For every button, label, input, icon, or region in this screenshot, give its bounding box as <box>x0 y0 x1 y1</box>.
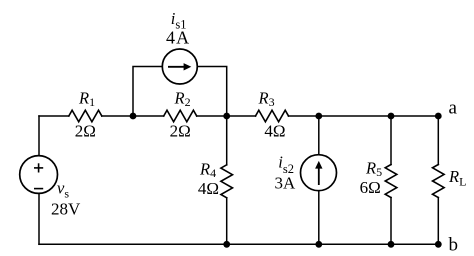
wire top-left segment <box>39 115 69 117</box>
wire node C to R5 <box>390 116 392 165</box>
resistor RL <box>433 165 445 198</box>
voltage source minus sign <box>34 188 43 190</box>
node dot top R2/R4 <box>223 113 230 120</box>
node dot top is2 <box>315 113 322 120</box>
svg-text:2Ω: 2Ω <box>170 122 191 141</box>
wire is1 left leg <box>133 67 162 117</box>
svg-text:4Ω: 4Ω <box>198 179 219 198</box>
resistor R4 <box>221 165 233 198</box>
junction node dots <box>130 113 442 248</box>
svg-text:28V: 28V <box>51 200 81 219</box>
wire is2 to bottom rail <box>318 191 320 245</box>
svg-text:4Ω: 4Ω <box>264 122 285 141</box>
resistor R3 <box>256 110 289 122</box>
node dot bottom R5 <box>388 241 395 248</box>
wire R4 to bottom rail <box>226 198 228 245</box>
node dot terminal a <box>435 113 442 120</box>
current source is2 circle <box>301 155 337 191</box>
current source is2 arrow <box>315 161 322 185</box>
resistor R1 <box>69 110 102 122</box>
wire R3 to terminal a <box>289 115 439 117</box>
wire is1 right leg <box>197 67 226 117</box>
node dot terminal b <box>435 241 442 248</box>
svg-text:a: a <box>449 97 458 118</box>
svg-text:6Ω: 6Ω <box>360 178 381 197</box>
wire bottom rail <box>39 243 438 245</box>
voltage source vs circle <box>20 156 58 194</box>
wire node A to R4 <box>226 116 228 165</box>
svg-text:2Ω: 2Ω <box>75 122 96 141</box>
svg-text:4A: 4A <box>166 28 190 48</box>
wire terminal a to RL <box>437 116 439 165</box>
node dot top R1/is1 <box>130 113 137 120</box>
wire node B to is2 <box>318 116 320 155</box>
svg-text:3A: 3A <box>275 173 297 192</box>
svg-text:b: b <box>449 235 459 256</box>
resistor R2 <box>164 110 197 122</box>
wire left rail upper <box>38 116 40 156</box>
wire RL to bottom rail <box>437 198 439 245</box>
node dot bottom is2 <box>315 241 322 248</box>
wire R2 to R3 <box>197 115 256 117</box>
wire R1 to node A <box>102 115 164 117</box>
current source is1 circle <box>162 49 197 84</box>
voltage source plus sign <box>34 163 43 172</box>
node dot bottom R4 <box>223 241 230 248</box>
node dot top R5 <box>388 113 395 120</box>
resistor R5 <box>385 165 397 198</box>
wire R5 to bottom rail <box>390 198 392 245</box>
wire left rail lower <box>38 193 40 244</box>
current source is1 arrow <box>168 63 191 70</box>
